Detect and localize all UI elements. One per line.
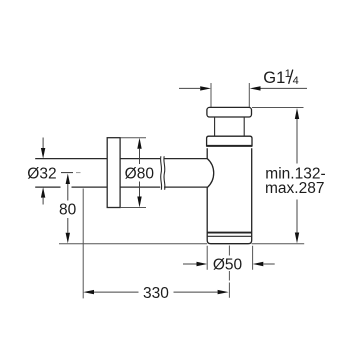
pipe break symbol	[161, 156, 162, 189]
trap lid thick bottom edge	[207, 145, 252, 147]
svg-text:Ø80: Ø80	[125, 165, 155, 182]
dimension 80 line and arrows	[67, 184, 69, 233]
pipe center line dash	[61, 172, 73, 174]
svg-text:330: 330	[143, 285, 169, 302]
dimension 330 line and arrows	[94, 291, 218, 293]
wall flange disc	[107, 138, 120, 208]
svg-text:max.287: max.287	[265, 180, 324, 197]
dimension min.132-max.287 extension lines	[252, 108, 305, 244]
dimension 330 left extension line	[82, 189, 84, 299]
svg-text:G1: G1	[263, 69, 285, 87]
trap lid	[207, 136, 252, 146]
dimension O50 extension lines	[207, 246, 252, 270]
trap axis center line (dash-dot)	[228, 246, 230, 298]
trap cup ring (thick band)	[207, 232, 252, 234]
trap neck	[215, 117, 245, 136]
wire horizontal inlet pipe top edge	[35, 158, 207, 160]
svg-text:Ø50: Ø50	[213, 256, 243, 273]
dimension O80 line and arrows	[139, 149, 141, 197]
trap inlet tube above flange nut	[211, 83, 249, 107]
wall flange extension lines (right of disc)	[121, 138, 146, 208]
trap flange nut (top disc)	[207, 107, 252, 117]
dimension min.132-max.287 line and arrows	[296, 119, 298, 233]
svg-text:80: 80	[59, 202, 77, 219]
svg-text:4: 4	[293, 75, 299, 87]
dimension G1 1/4 leader arrows	[179, 87, 200, 89]
dimension O32 arrows	[42, 138, 44, 149]
wire horizontal inlet pipe bottom edge	[35, 186, 207, 188]
svg-text:Ø32: Ø32	[27, 165, 56, 182]
dimension O50 arrows	[183, 263, 197, 265]
dimension 80 bottom extension line	[59, 243, 207, 245]
trap body	[207, 148, 252, 243]
